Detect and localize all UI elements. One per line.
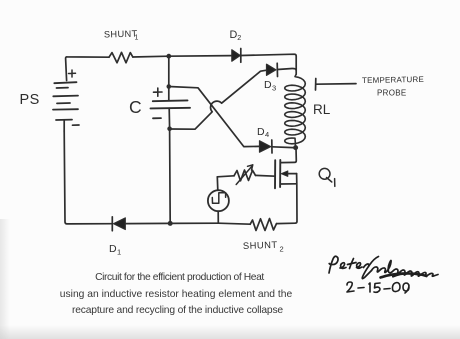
wire D3 cathode to coil-top vertical: [278, 68, 297, 70]
node top wire / capacitor branch junction: [166, 54, 171, 59]
wire bottom-right (SHUNT2 to pulse generator stem): [219, 223, 251, 224]
caption line 2: [0, 284, 352, 302]
node capacitor bottom plate junction: [167, 126, 172, 131]
inductor RL (coil): [285, 74, 306, 147]
wire capacitor branch top (top wire down to C): [168, 56, 170, 100]
wire cap-top to D4 diagonal: [169, 87, 259, 147]
capacitor C plates: [151, 100, 191, 108]
resistor SHUNT2: [250, 219, 276, 231]
caption line 3: [0, 300, 355, 318]
signature Peter Lindemann: [329, 256, 438, 278]
caption line 1: [0, 267, 359, 285]
label C plus: [154, 88, 163, 96]
wire top-right (junction to D2): [169, 55, 232, 58]
pulse generator: [208, 177, 229, 223]
temperature probe pointer: [316, 79, 357, 91]
potentiometer (variable resistor): [217, 165, 255, 185]
wire D2 to top-right corner, down to coil top: [241, 54, 296, 74]
wire top-middle (SHUNT1 to C junction): [133, 55, 169, 58]
label C minus: [153, 117, 161, 119]
wire bottom (capacitor junction to D1): [125, 222, 170, 224]
wire bottom-left (D1 to left corner, up to PS minus): [64, 131, 112, 224]
node capacitor top plate junction: [167, 84, 172, 89]
wire D4 cathode to junction: [272, 146, 293, 149]
power supply PS (battery): [53, 82, 78, 131]
wire bottom-middle (pulse gen to capacitor junction): [170, 222, 218, 224]
date 2-15-09: [347, 282, 409, 293]
resistor SHUNT1: [109, 52, 133, 62]
node bottom wire junction: [168, 221, 173, 226]
diode D1: [112, 217, 125, 231]
label PS plus: [69, 70, 76, 77]
wire cap-bottom to D3 diagonal (with hop over crossing): [170, 70, 266, 129]
diode D4: [260, 140, 273, 153]
wire top-left (PS + terminal up and right to SHUNT1): [66, 57, 109, 81]
node coil bottom / D4 / drain junction: [293, 145, 298, 150]
wire source down to bottom-right corner and SHUNT2: [277, 174, 298, 224]
diode D2: [232, 49, 241, 63]
transistor Q1 (MOSFET): [275, 148, 297, 189]
diode D3: [267, 63, 278, 76]
wire gate (potentiometer to Q1 gate): [256, 174, 276, 177]
wire capacitor branch bottom (C down to bottom wire): [169, 108, 170, 223]
label Q1: [319, 168, 335, 186]
label PS minus: [73, 124, 80, 126]
